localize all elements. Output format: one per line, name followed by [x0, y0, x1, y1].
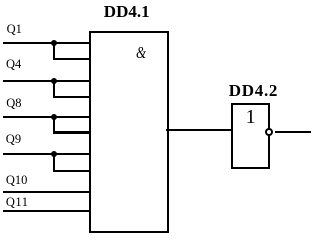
wire Q1 main [3, 42, 89, 44]
wire Q4 main [3, 80, 89, 82]
node Q8 label [6, 97, 21, 110]
node Q11 label [6, 196, 29, 209]
wire Q8 branch horizontal [53, 131, 89, 133]
junction dot Q8 [51, 114, 57, 120]
label & (function symbol) [136, 45, 146, 62]
node Q9 label [6, 133, 21, 146]
wire Q1 branch horizontal [53, 58, 89, 60]
wire Q1 branch vertical [53, 43, 55, 60]
wire Q11 main [3, 210, 89, 212]
inversion bubble on DD4.2 output [265, 128, 273, 136]
label DD4.1 [104, 3, 150, 20]
junction dot Q1 [51, 40, 57, 46]
inverter DD4.2 (IEC rectangle) [231, 103, 270, 169]
wire Q8 main [3, 116, 89, 118]
wire Q9 branch vertical [53, 154, 55, 172]
wire DD4.2 output [275, 131, 312, 133]
wire Q8 branch vertical [53, 117, 55, 134]
label DD4.2 [229, 82, 278, 99]
node Q4 label [6, 58, 21, 71]
label 1 (function symbol) [246, 107, 256, 127]
wire Q4 branch horizontal [53, 96, 89, 98]
wire Q9 branch horizontal [53, 170, 89, 172]
junction dot Q9 [51, 151, 57, 157]
node Q1 label [7, 23, 22, 36]
wire DD4.1 output to DD4.2 input [166, 129, 231, 131]
wire Q4 branch vertical [53, 81, 55, 98]
node Q10 label [6, 174, 28, 187]
junction dot Q4 [51, 78, 57, 84]
wire Q9 main [3, 153, 89, 155]
AND gate DD4.1 (IEC rectangle) [89, 31, 170, 233]
wire Q10 main [3, 191, 89, 193]
